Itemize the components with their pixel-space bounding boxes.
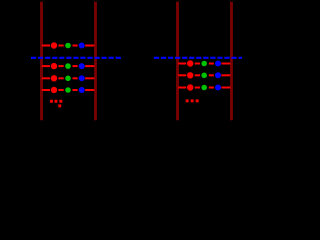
right panel continuation dots marker 2 <box>191 99 194 102</box>
right E3 red electron <box>187 84 193 90</box>
left panel level E4 dashes <box>42 89 94 91</box>
left panel continuation dots marker 4 <box>58 104 61 107</box>
left E4 red electron <box>51 87 57 93</box>
left E2 blue electron <box>79 63 85 69</box>
left barrier wall (right dot) <box>176 2 179 120</box>
right E2 blue electron <box>215 72 221 78</box>
left panel continuation dots marker 1 <box>50 100 53 103</box>
right E1 green electron <box>201 61 207 67</box>
left panel continuation dots marker 2 <box>55 100 58 103</box>
left E2 red electron <box>51 63 57 69</box>
left E4 green electron <box>65 87 71 93</box>
left panel level E1 dashes <box>42 45 94 47</box>
left E1 blue electron <box>79 43 85 49</box>
chemical potential mu_L dashed line <box>31 57 121 59</box>
left panel level E2 dashes <box>42 65 94 67</box>
left E3 green electron <box>65 76 71 82</box>
left E3 blue electron <box>79 75 85 81</box>
left E4 blue electron <box>79 87 85 93</box>
right E2 green electron <box>201 73 207 79</box>
right barrier wall (left dot) <box>94 2 97 120</box>
right panel continuation dots marker 3 <box>196 99 199 102</box>
right E2 red electron <box>187 72 193 78</box>
right panel continuation dots marker 1 <box>186 99 189 102</box>
chemical potential mu_R dashed line <box>154 57 242 59</box>
right E3 green electron <box>201 85 207 91</box>
right panel level E1 dashes <box>178 63 230 65</box>
right E1 red electron <box>187 60 193 66</box>
right barrier wall (right dot) <box>230 2 233 120</box>
left panel level E3 dashes <box>42 77 94 79</box>
right panel level E2 dashes <box>178 74 230 76</box>
right E1 blue electron <box>215 61 221 67</box>
left panel continuation dots marker 3 <box>59 100 62 103</box>
left E1 red electron <box>51 42 57 48</box>
right panel level E3 dashes <box>178 87 230 89</box>
left E3 red electron <box>51 75 57 81</box>
left barrier wall (left dot) <box>40 2 43 120</box>
right E3 blue electron <box>215 85 221 91</box>
left E2 green electron <box>65 63 71 69</box>
left E1 green electron <box>65 43 71 49</box>
